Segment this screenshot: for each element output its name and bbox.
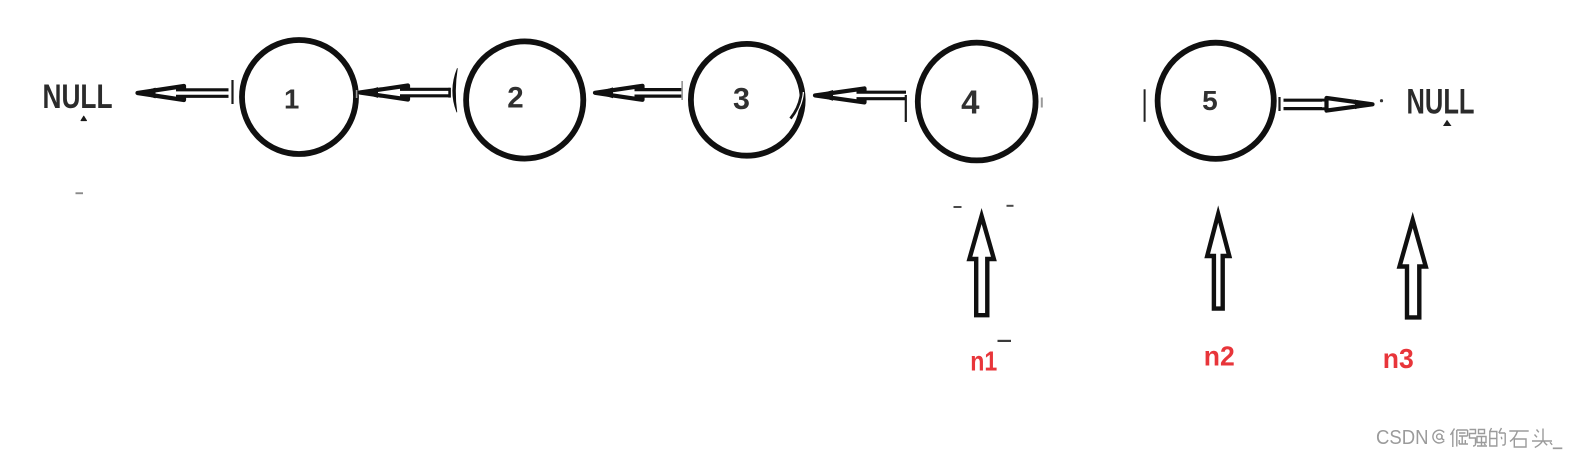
gray tick inside node1 right edge <box>356 90 358 98</box>
short vertical line left of node5 <box>1144 89 1146 122</box>
pointer arrow node3 to node2 : head <box>595 86 643 100</box>
arrow tail crescent <box>453 69 458 113</box>
glyph shi <box>1509 431 1528 447</box>
dash marks above n1 arrow <box>954 206 962 208</box>
watermark chinese glyphs <box>1451 428 1563 448</box>
glyph qiang <box>1470 430 1488 447</box>
underscore <box>1553 447 1563 449</box>
svg-text:1: 1 <box>284 84 299 115</box>
arrow tail downward line <box>905 95 907 122</box>
svg-text:n1: n1 <box>970 346 997 377</box>
gray dash mark lower-left <box>76 192 84 194</box>
arrow throat patch <box>403 90 412 96</box>
arrow shaft <box>1284 100 1335 108</box>
node 2 circle <box>466 41 583 158</box>
arrow shaft (double line) <box>176 90 229 97</box>
glyph tou <box>1532 429 1552 448</box>
svg-text:n3: n3 <box>1383 343 1414 374</box>
up arrow n1 <box>969 216 994 315</box>
node 4 circle <box>918 43 1036 161</box>
svg-text:CSDN: CSDN <box>1376 427 1429 449</box>
arrow head pointing right <box>1327 98 1373 111</box>
arrow shaft <box>400 89 451 96</box>
svg-text:4: 4 <box>961 84 980 121</box>
arrow throat patch <box>1322 102 1331 108</box>
gray tick right of node4 <box>1041 98 1043 108</box>
small triangle below right NULL <box>1443 120 1452 126</box>
svg-text:NULL: NULL <box>1407 83 1475 122</box>
small dot right of arrow tip <box>1380 99 1383 102</box>
svg-text:NULL: NULL <box>43 78 113 116</box>
arrow throat patch <box>638 90 647 96</box>
inner arc inside node3 right edge <box>792 92 804 119</box>
small dot below left NULL <box>81 116 87 120</box>
svg-text:2: 2 <box>507 82 523 115</box>
dash above n1 label <box>998 340 1012 342</box>
node 1 circle <box>242 40 356 154</box>
node 5 circle <box>1158 43 1274 159</box>
arrow tail bar <box>231 80 233 104</box>
up arrow n2 <box>1207 214 1229 309</box>
svg-text:3: 3 <box>733 82 750 116</box>
svg-text:5: 5 <box>1202 85 1218 116</box>
glyph de <box>1490 428 1505 446</box>
pointer arrow node4 to node3 : head <box>815 88 865 102</box>
pointer arrow node5 to NULL : tail bar <box>1278 97 1280 111</box>
up arrow n3 <box>1400 220 1426 317</box>
arrow throat patch <box>860 93 869 99</box>
watermark at-sign <box>1433 430 1444 443</box>
glyph jue <box>1451 429 1469 448</box>
arrow shaft <box>857 92 907 99</box>
arrow shaft <box>635 90 683 97</box>
node 3 circle <box>691 44 803 156</box>
arrow throat patch <box>179 90 188 96</box>
arrow tail faint line <box>681 81 683 100</box>
pointer arrow node2 to node1 : head <box>360 86 408 100</box>
pointer arrow node1 to NULL : head <box>138 86 185 100</box>
svg-text:n2: n2 <box>1204 341 1235 372</box>
